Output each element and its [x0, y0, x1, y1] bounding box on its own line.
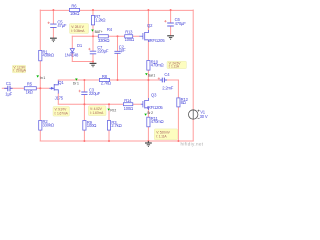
svg-text:J175: J175 [55, 96, 64, 101]
tooltip V 9.97V [53, 107, 69, 117]
resistor R6 [69, 8, 79, 11]
svg-text:470mΩ: 470mΩ [151, 119, 164, 124]
tooltip V 24.5V [167, 61, 186, 68]
svg-text:330kΩ: 330kΩ [43, 123, 54, 128]
svg-text:100Ω: 100Ω [87, 123, 96, 128]
resistor R10 [147, 61, 150, 71]
wire C2 branch [117, 36, 119, 80]
node Dr 1 [75, 79, 78, 81]
svg-text:I: 1.67mA: I: 1.67mA [55, 111, 69, 115]
svg-text:30 V: 30 V [200, 114, 208, 119]
wire input node to R2 [39, 88, 41, 120]
svg-text:1µF: 1µF [119, 48, 126, 53]
wire right rail top (to V1) [192, 10, 194, 110]
svg-text:8Ω: 8Ω [181, 100, 186, 105]
svg-text:2.2mF: 2.2mF [162, 86, 174, 91]
resistor R13 [125, 35, 133, 38]
node Sal 1 [145, 73, 148, 75]
svg-text:1N4148: 1N4148 [65, 53, 79, 58]
svg-text:Dr 1: Dr 1 [73, 82, 79, 86]
wire Q1 source down [57, 94, 59, 105]
wire R12 bottom to bottom rail [177, 107, 179, 141]
svg-text:I: 1.67mA: I: 1.67mA [90, 111, 104, 115]
svg-text:R6: R6 [71, 3, 77, 8]
C5 polarity plus [48, 22, 50, 24]
wire left rail upper (top rail to R1) [39, 10, 41, 50]
resistor R8 [99, 78, 109, 81]
svg-text:100Ω: 100Ω [124, 106, 133, 111]
node In 1 [36, 75, 39, 77]
resistor R5 [24, 87, 36, 90]
capacitor C4 [160, 78, 167, 83]
wire R1 bottom to input node [39, 61, 41, 89]
wire Q2 source to R10 [147, 41, 149, 61]
wire Q3 gate row [58, 103, 141, 105]
capacitor C5 [50, 24, 56, 27]
resistor R12 [177, 98, 180, 107]
wire R10 to output node [147, 70, 149, 80]
svg-text:100Ω: 100Ω [125, 37, 134, 42]
transistor Q2 [140, 30, 149, 42]
wire D1 branch [71, 36, 73, 61]
wire bottom rail [40, 140, 193, 142]
wire R7 branch [92, 10, 94, 36]
C7 polarity plus [88, 48, 90, 50]
wire mid rail (Q1 drain row) [58, 79, 178, 81]
svg-text:1kΩ: 1kΩ [26, 89, 33, 94]
svg-text:330kΩ: 330kΩ [98, 38, 109, 43]
resistor R3 [107, 121, 110, 131]
ground (D1/C7) [90, 63, 97, 66]
diode D1 1N4148 [70, 49, 74, 53]
wire Q3 source to R11 [147, 108, 149, 141]
tooltip V 12.9V [12, 65, 26, 73]
svg-text:Q2: Q2 [147, 23, 153, 28]
svg-text:I: 29.8µA: I: 29.8µA [13, 69, 26, 73]
svg-text:C1: C1 [6, 81, 12, 86]
svg-text:R5: R5 [27, 81, 33, 86]
svg-text:47µF: 47µF [57, 23, 67, 28]
ground (C6) [167, 36, 174, 39]
svg-text:R4: R4 [107, 27, 113, 32]
capacitor C7 [90, 51, 96, 54]
svg-text:470mΩ: 470mΩ [151, 63, 164, 68]
C6 polarity plus [164, 20, 166, 22]
svg-text:Q1: Q1 [58, 80, 64, 85]
wire C6 branch [170, 10, 172, 35]
svg-text:438kΩ: 438kΩ [43, 53, 54, 58]
resistor R14 [123, 103, 132, 106]
wire output corner down to R12 [177, 80, 179, 98]
node BAT+ [91, 30, 94, 32]
wire C4 leads [148, 79, 178, 81]
svg-text:I: 1.11A: I: 1.11A [156, 135, 167, 139]
voltage source V1 [189, 110, 200, 120]
wire R3 branch [108, 104, 110, 141]
svg-text:R13: R13 [125, 30, 133, 35]
wire R2 bottom to bottom rail [39, 130, 41, 141]
wire top rail [40, 9, 193, 11]
svg-text:C4: C4 [164, 72, 170, 77]
C3 polarity plus [79, 90, 81, 92]
wire C3 bottom lead [83, 95, 85, 104]
resistor R7 [91, 16, 94, 25]
svg-text:I: 1.11A: I: 1.11A [169, 65, 180, 69]
transistor Q3 [141, 98, 149, 110]
svg-text:10kΩ: 10kΩ [70, 11, 79, 16]
svg-text:Sal 1: Sal 1 [148, 73, 155, 77]
svg-text:2.7kΩ: 2.7kΩ [111, 123, 121, 128]
wire V1 bottom to bottom rail [192, 120, 194, 142]
tooltip V 520mV [154, 129, 177, 140]
svg-text:Sr 2: Sr 2 [147, 111, 153, 115]
resistor R11 [147, 117, 150, 127]
wire input line [2, 87, 49, 89]
capacitor C1 [4, 86, 12, 91]
resistor R9 [83, 121, 86, 131]
tooltip V 28.0V [70, 24, 89, 34]
svg-text:R8: R8 [102, 74, 108, 79]
capacitor C6 [167, 23, 174, 26]
C4 polarity plus [158, 77, 160, 79]
svg-text:IRFI1205: IRFI1205 [149, 38, 166, 43]
wire Q2 drain [147, 10, 149, 30]
svg-text:Q3: Q3 [151, 92, 157, 97]
wire C5 branch [52, 10, 54, 38]
capacitor C2 [114, 51, 120, 53]
svg-text:1.2kΩ: 1.2kΩ [95, 18, 105, 23]
resistor R2 [39, 121, 42, 131]
wire R9 branch [83, 104, 85, 141]
capacitor C3 [81, 92, 87, 95]
svg-text:BAT+: BAT+ [95, 30, 103, 34]
tooltip V 4.02V [88, 106, 106, 116]
ground (bottom rail) [145, 141, 152, 146]
svg-text:2.7kΩ: 2.7kΩ [101, 81, 111, 86]
wire D1/C7 bottom [72, 61, 93, 63]
wire C7 branch [92, 36, 94, 63]
wire C3 top lead [83, 80, 85, 92]
svg-text:220µF: 220µF [97, 48, 109, 53]
svg-text:470µF: 470µF [175, 21, 187, 26]
wire Q3 drain [147, 80, 149, 98]
svg-text:IRFI1205: IRFI1205 [147, 105, 164, 110]
transistor Q1 J175 [49, 81, 58, 94]
svg-text:Rt 2: Rt 2 [110, 108, 116, 112]
junction dots [39, 9, 179, 142]
svg-text:hifidiy.net: hifidiy.net [181, 142, 204, 147]
svg-text:In 1: In 1 [40, 76, 45, 80]
node Rt 2 [107, 109, 110, 111]
node Sr 2 [144, 114, 147, 116]
svg-text:1µF: 1µF [5, 91, 12, 96]
svg-text:R14: R14 [124, 98, 132, 103]
svg-text:D1: D1 [77, 43, 83, 48]
resistor R1 [39, 50, 42, 60]
wire BAT+ row [72, 35, 139, 37]
ground (C5) [50, 38, 57, 41]
svg-text:220µF: 220µF [89, 91, 101, 96]
resistor R4 [98, 35, 108, 38]
svg-text:I: 9.36mA: I: 9.36mA [71, 29, 85, 33]
